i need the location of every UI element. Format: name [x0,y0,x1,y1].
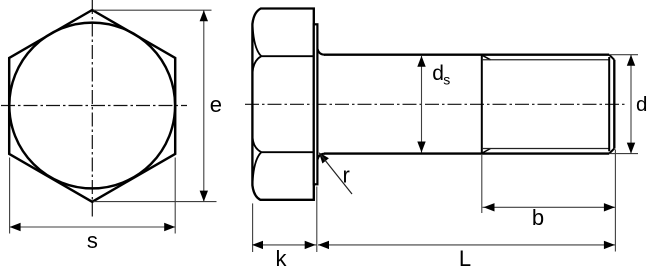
arrow s left [10,223,21,231]
svg-text:s: s [87,228,98,253]
thread minor line top [482,59,609,61]
extension line s right [174,158,176,234]
chamfer arc top facet [253,26,262,56]
dimension e line [203,10,205,201]
dimension k line [252,244,317,246]
arrow k left [252,241,263,249]
inscribed circle [9,23,175,189]
arrow ds up [417,56,425,67]
extension line k right (washer face) [316,187,318,253]
leader r line [321,155,353,195]
arrow ds down [417,142,425,153]
extension line d bottom [611,153,639,155]
arrow L right [604,241,615,249]
extension line k left [252,203,254,252]
centerline horizontal (right view) [245,103,625,105]
end chamfer top diagonal [609,55,614,60]
svg-text:r: r [343,163,350,188]
arrow e down [200,191,208,202]
extension line e top [94,9,212,11]
svg-text:s: s [443,72,450,88]
arrow L left [318,241,329,249]
extension line e bottom [94,201,217,203]
dimension d line [630,55,632,154]
svg-text:b: b [532,205,544,230]
svg-text:d: d [432,62,444,85]
thread runout top [482,55,491,60]
chamfer arc middle facet [253,56,262,152]
end face line [613,60,615,149]
extension line b/L right [614,150,616,252]
leader r arrow [319,152,329,163]
extension line d top [611,54,639,56]
extension line b left [481,155,483,213]
arrow b left [484,203,495,211]
fillet under head top [318,49,325,55]
head outline [252,9,313,200]
svg-text:d: d [636,93,647,116]
centerline vertical (left view) [91,0,93,217]
arrow s right [164,223,175,231]
end chamfer circle line [608,57,610,151]
fillet under head bottom [318,154,325,160]
arrow d down [627,143,635,154]
dimension b line [483,206,615,208]
facet line bottom [261,151,314,153]
arrow k right [305,241,316,249]
arrow d up [627,55,635,66]
svg-text:L: L [459,246,471,271]
svg-text:k: k [276,246,288,271]
dimension L line [318,244,615,246]
facet line top [261,55,314,57]
arrow e up [200,10,208,21]
arrow b right [604,203,615,211]
thread minor line bottom [482,148,609,150]
washer face flange [314,24,318,184]
centerline horizontal (left view) [1,105,187,107]
hexagon outline [9,10,175,202]
thread start line [481,55,483,154]
thread runout bottom [482,149,491,154]
dimension s line [10,226,176,228]
extension line s left [9,158,11,234]
shank bottom line [324,152,609,154]
shank top line [324,54,609,56]
chamfer arc bottom facet [253,152,262,182]
dimension ds line [421,56,423,153]
svg-text:e: e [210,92,222,117]
end chamfer bottom diagonal [609,149,614,154]
